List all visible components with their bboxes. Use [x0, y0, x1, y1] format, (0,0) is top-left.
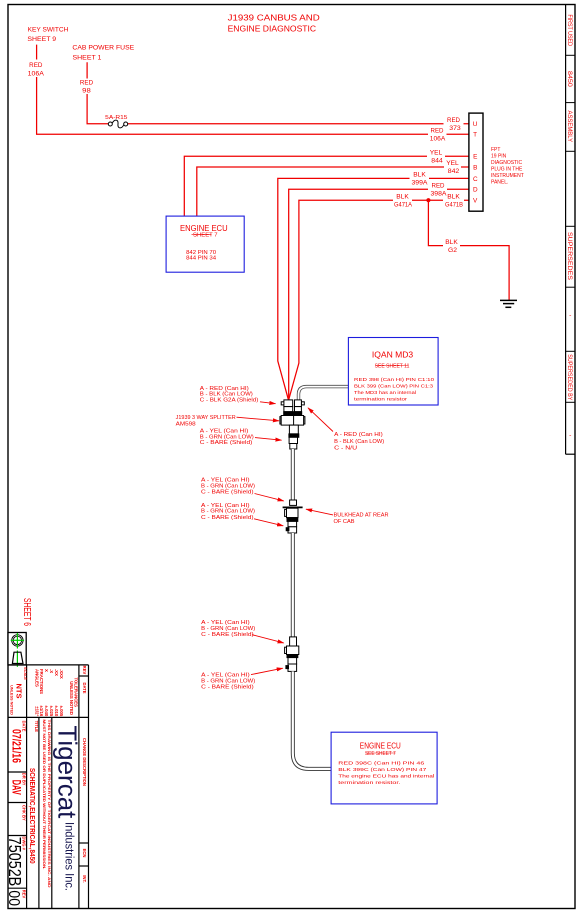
leader right group to splitter — [308, 408, 333, 432]
junction node BLK G471 — [426, 198, 430, 202]
svg-text:CAB POWER FUSE: CAB POWER FUSE — [72, 44, 134, 51]
leader splitter label — [237, 417, 280, 421]
svg-text:U: U — [473, 121, 478, 128]
wire BLK G471A pin V to splitter — [289, 200, 469, 399]
svg-text:±1/2°: ±1/2° — [34, 706, 39, 716]
label group inline connector A-B-C — [201, 620, 255, 638]
svg-text:V: V — [473, 198, 478, 205]
svg-text:D: D — [473, 187, 478, 194]
svg-text:YEL: YEL — [446, 160, 459, 167]
svg-text:ECN: ECN — [82, 849, 87, 858]
projection symbol trapezoid — [12, 652, 23, 663]
svg-text:5A-R15: 5A-R15 — [105, 115, 127, 121]
svg-text:SHEET 6: SHEET 6 — [21, 598, 32, 626]
svg-text:UNLESS NOTED: UNLESS NOTED — [69, 681, 74, 715]
svg-text:J1939 CANBUS AND: J1939 CANBUS AND — [228, 13, 320, 23]
label group splitter lower A-B-C (YEL/GRN/BARE) — [200, 429, 254, 446]
svg-text:YEL: YEL — [430, 149, 443, 156]
ground symbol — [500, 300, 517, 307]
svg-text:The MD3 has an internal: The MD3 has an internal — [354, 390, 416, 395]
svg-text:RED: RED — [80, 80, 94, 87]
svg-text:G471B: G471B — [445, 201, 463, 208]
leader group1 to splitter — [260, 402, 276, 404]
label group bulkhead upper A-B-C — [201, 478, 255, 496]
svg-text:T: T — [473, 132, 477, 139]
svg-text:PANEL.: PANEL. — [491, 180, 508, 186]
title block grid — [8, 665, 89, 909]
svg-text:A - RED (Can HI): A - RED (Can HI) — [334, 432, 383, 438]
leader group3 to bulkhead top — [255, 494, 284, 501]
svg-text:8450: 8450 — [566, 71, 573, 87]
bulkhead connector at rear of cab — [283, 500, 303, 533]
svg-text:ENGINE DIAGNOSTIC: ENGINE DIAGNOSTIC — [228, 24, 317, 34]
svg-text:75052B: 75052B — [5, 837, 25, 887]
svg-text:FIRST USED: FIRST USED — [566, 14, 573, 46]
wire cab power fuse RED 98 to fuse — [87, 62, 108, 123]
wire YEL 842 pin B to engine ECU — [197, 167, 469, 216]
label group bulkhead lower A-B-C — [201, 503, 255, 521]
svg-text:IQAN MD3: IQAN MD3 — [372, 350, 414, 359]
svg-text:SCALE: SCALE — [23, 667, 27, 680]
wire fuse to pin U RED 373 — [128, 123, 469, 125]
label group inline connector lower A-B-C — [201, 673, 255, 691]
engine ECU box (sheet 7) — [166, 216, 244, 272]
svg-text:BLK: BLK — [396, 193, 409, 200]
svg-text:DIAGNOSTIC: DIAGNOSTIC — [491, 160, 523, 166]
revision table headers — [82, 666, 87, 883]
revision strip column border — [566, 5, 575, 455]
leader group6 to inline connector lower — [251, 668, 283, 674]
svg-text:SHEET 1: SHEET 1 — [73, 54, 102, 61]
projection symbol green axes — [11, 633, 24, 667]
svg-text:ENGINE ECU: ENGINE ECU — [360, 742, 401, 751]
twisted pair cable splitter to IQAN MD3 — [299, 387, 349, 400]
note FPT 19 PIN DIAGNOSTIC PLUG — [491, 147, 524, 186]
svg-text:ENGINE ECU: ENGINE ECU — [180, 224, 228, 233]
svg-text:termination resistor: termination resistor — [354, 396, 408, 401]
svg-text:BLK: BLK — [413, 172, 426, 179]
svg-text:ASSEMBLY: ASSEMBLY — [566, 111, 573, 143]
leader group4 to bulkhead bottom — [254, 519, 283, 526]
svg-text:399A: 399A — [412, 180, 429, 187]
connector FPT 19-pin diagnostic plug — [469, 113, 483, 211]
svg-text:RED 398C (Can HI) PIN 46: RED 398C (Can HI) PIN 46 — [338, 760, 425, 765]
svg-text:E: E — [473, 154, 477, 161]
label group splitter pin A-B-C (RED/BLK/BLK G2A) — [200, 386, 259, 404]
label patches — [27, 60, 465, 252]
svg-text:REV: REV — [82, 666, 87, 675]
svg-text:398A: 398A — [431, 191, 448, 198]
twisted pair cable inline connector to engine ECU — [293, 671, 331, 769]
svg-text:PLUG IN THE: PLUG IN THE — [491, 167, 523, 173]
svg-text:106A: 106A — [430, 135, 447, 142]
IQAN MD3 box (sheet 11) — [348, 338, 438, 406]
svg-text:NTS: NTS — [15, 684, 24, 699]
svg-text:OF CAB: OF CAB — [334, 519, 356, 525]
svg-text:C: C — [473, 176, 478, 183]
svg-text:-: - — [569, 432, 571, 439]
svg-text:B: B — [473, 164, 477, 171]
svg-text:G2: G2 — [448, 247, 458, 254]
svg-text:C - BLK G2A (Shield): C - BLK G2A (Shield) — [200, 398, 259, 404]
svg-text:SEE SHEET 7: SEE SHEET 7 — [365, 751, 396, 757]
svg-text:BULKHEAD AT REAR: BULKHEAD AT REAR — [334, 513, 389, 519]
svg-text:Tigercat: Tigercat — [53, 725, 83, 819]
projection symbol circle — [12, 635, 23, 646]
svg-text:B - BLK (Can LOW): B - BLK (Can LOW) — [334, 439, 384, 445]
svg-text:C - BARE (Shield): C - BARE (Shield) — [200, 440, 253, 446]
svg-text:SUPERSEDES: SUPERSEDES — [566, 232, 573, 280]
svg-text:DAV: DAV — [9, 780, 23, 795]
svg-text:C - N/U: C - N/U — [334, 446, 357, 452]
svg-text:AM598: AM598 — [176, 421, 196, 427]
svg-text:ANGLES: ANGLES — [34, 669, 39, 687]
twisted pair cable bulkhead to inline connector — [291, 533, 295, 637]
svg-text:The engine ECU has and interna: The engine ECU has and internal — [338, 774, 434, 779]
engine ECU box (bottom, sheet 7) — [331, 732, 437, 804]
svg-text:RED: RED — [29, 62, 43, 69]
svg-text:RED: RED — [447, 117, 461, 124]
svg-text:Industries Inc.: Industries Inc. — [63, 822, 75, 891]
svg-text:INSTRUMENT: INSTRUMENT — [491, 173, 524, 179]
svg-text:B - GRN (Can LOW): B - GRN (Can LOW) — [201, 509, 255, 515]
J1939 3-way splitter AM598 connector — [280, 400, 305, 449]
svg-text:844: 844 — [431, 157, 443, 164]
svg-text:07/21/16: 07/21/16 — [9, 729, 23, 763]
svg-text:BLK: BLK — [445, 239, 458, 246]
svg-text:FPT: FPT — [491, 147, 500, 153]
svg-text:INT.: INT. — [82, 875, 87, 882]
fuse 5A-R15 — [105, 115, 128, 128]
wire BLK 399A pin C to splitter — [278, 178, 469, 399]
label group splitter right A-B-C (RED/BLK/N-U) — [334, 432, 384, 452]
leader group5 to inline connector — [252, 635, 284, 643]
svg-text:KEY SWITCH: KEY SWITCH — [28, 27, 69, 34]
svg-text:98: 98 — [82, 88, 91, 95]
svg-text:MUST NOT BE USED OR DUPLICATED: MUST NOT BE USED OR DUPLICATED WITHOUT T… — [42, 720, 47, 870]
svg-text:SUPERSEDED BY: SUPERSEDED BY — [566, 354, 573, 401]
svg-text:844 PIN 34: 844 PIN 34 — [186, 255, 216, 261]
leader group2 to splitter stem — [255, 438, 282, 441]
svg-text:842: 842 — [448, 168, 460, 175]
wire key switch RED 106A to pin T — [37, 45, 469, 135]
svg-text:RED: RED — [432, 183, 446, 190]
svg-text:106A: 106A — [28, 70, 45, 77]
svg-text:termination resistor.: termination resistor. — [338, 780, 400, 785]
svg-text:00: 00 — [5, 890, 22, 906]
svg-text:TITLE: TITLE — [34, 721, 39, 733]
projection symbol box — [8, 633, 26, 666]
svg-text:UNLESS NOTED: UNLESS NOTED — [10, 685, 14, 715]
wire BLK G2 to ground — [428, 200, 509, 300]
svg-text:CHK BY: CHK BY — [22, 805, 27, 821]
twisted pair cable splitter to bulkhead — [291, 449, 295, 500]
svg-text:SEE SHEET 11: SEE SHEET 11 — [375, 363, 410, 369]
svg-text:C - BARE (Shield): C - BARE (Shield) — [201, 515, 254, 521]
svg-text:373: 373 — [449, 125, 461, 132]
svg-text:BLK 399 (Can LOW) PIN C1:3: BLK 399 (Can LOW) PIN C1:3 — [354, 384, 433, 389]
wire YEL 844 pin E to engine ECU — [184, 156, 469, 216]
svg-text:SCHEMATIC,ELECTRICAL,8450: SCHEMATIC,ELECTRICAL,8450 — [28, 768, 35, 864]
svg-text:-: - — [569, 312, 571, 319]
leader bulkhead label — [306, 509, 333, 515]
svg-text:RED: RED — [431, 127, 445, 134]
svg-text:C - BARE (Shield): C - BARE (Shield) — [201, 489, 254, 495]
svg-text:RED 398 (Can HI) PIN C1:10: RED 398 (Can HI) PIN C1:10 — [354, 377, 435, 382]
wire RED 398A pin D to splitter — [289, 189, 469, 399]
svg-text:C - BARE (Shield): C - BARE (Shield) — [201, 685, 254, 691]
svg-text:J1939 3 WAY SPLITTER: J1939 3 WAY SPLITTER — [176, 415, 236, 421]
svg-text:G471A: G471A — [394, 201, 413, 208]
svg-text:BLK: BLK — [447, 193, 460, 200]
svg-text:BLK 399C (Can LOW) PIN 47: BLK 399C (Can LOW) PIN 47 — [338, 767, 427, 772]
inline connector pair — [285, 637, 299, 672]
svg-text:C - BARE (Shield): C - BARE (Shield) — [201, 632, 254, 638]
svg-text:DATE: DATE — [82, 682, 87, 693]
svg-text:SHEET 7: SHEET 7 — [193, 233, 218, 239]
svg-text:SHEET 9: SHEET 9 — [27, 36, 56, 43]
svg-text:19 PIN: 19 PIN — [491, 154, 507, 160]
